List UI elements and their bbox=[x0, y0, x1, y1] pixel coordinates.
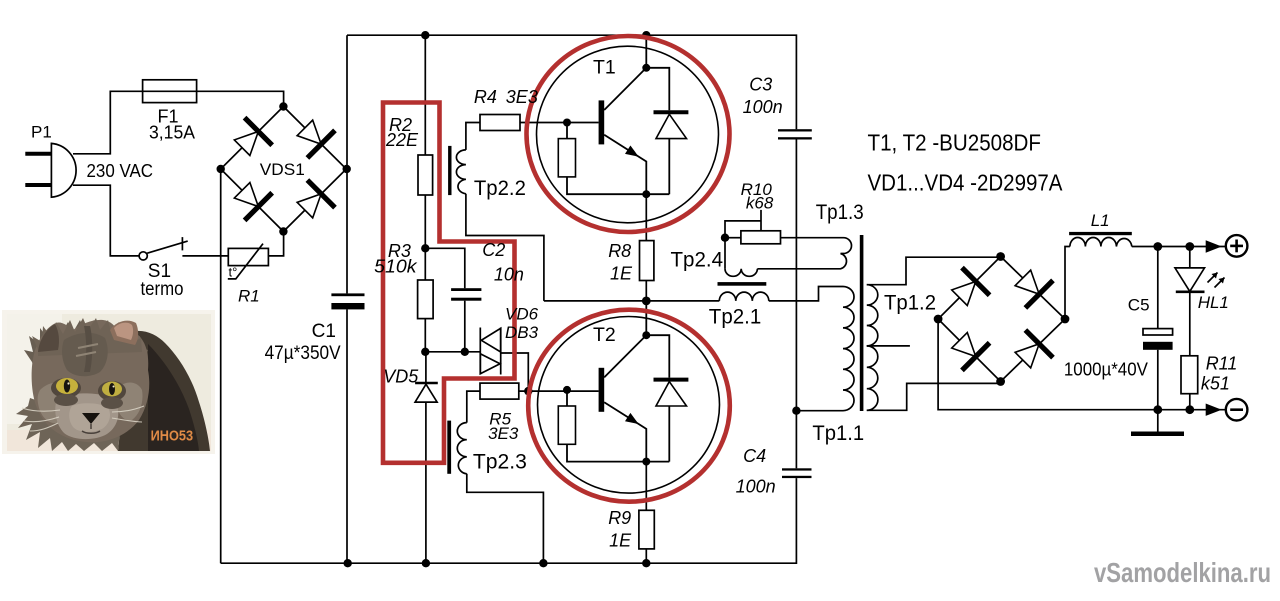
svg-text:C1: C1 bbox=[312, 321, 336, 342]
svg-text:Tp2.4: Tp2.4 bbox=[671, 249, 724, 272]
svg-text:C4: C4 bbox=[743, 446, 766, 466]
svg-text:Tp1.2: Tp1.2 bbox=[884, 292, 936, 315]
svg-text:1000µ*40V: 1000µ*40V bbox=[1064, 360, 1148, 380]
svg-text:R11: R11 bbox=[1206, 354, 1238, 374]
svg-text:Tp1.1: Tp1.1 bbox=[812, 422, 864, 445]
svg-text:ИНО53: ИНО53 bbox=[151, 428, 194, 444]
svg-text:R1: R1 bbox=[238, 287, 260, 306]
svg-text:HL1: HL1 bbox=[1198, 293, 1229, 312]
svg-text:k68: k68 bbox=[746, 194, 774, 213]
svg-text:3E3: 3E3 bbox=[506, 87, 538, 107]
svg-text:k51: k51 bbox=[1201, 374, 1230, 394]
svg-text:DB3: DB3 bbox=[505, 323, 539, 342]
svg-text:Tp2.2: Tp2.2 bbox=[474, 177, 526, 200]
svg-text:C5: C5 bbox=[1128, 296, 1150, 315]
svg-text:t°: t° bbox=[229, 265, 238, 280]
svg-text:VD6: VD6 bbox=[505, 305, 539, 324]
svg-text:vSamodelkina.ru: vSamodelkina.ru bbox=[1094, 557, 1271, 588]
svg-text:Tp2.3: Tp2.3 bbox=[473, 451, 527, 474]
svg-text:3,15A: 3,15A bbox=[149, 123, 195, 143]
svg-text:R9: R9 bbox=[608, 508, 631, 528]
svg-text:47µ*350V: 47µ*350V bbox=[265, 343, 341, 364]
svg-text:22E: 22E bbox=[385, 130, 419, 150]
svg-text:100n: 100n bbox=[743, 97, 783, 117]
svg-text:3E3: 3E3 bbox=[488, 424, 519, 443]
svg-text:T1, T2 -BU2508DF: T1, T2 -BU2508DF bbox=[868, 129, 1042, 155]
svg-text:P1: P1 bbox=[31, 123, 52, 142]
svg-text:VD5: VD5 bbox=[383, 367, 419, 387]
svg-text:R4: R4 bbox=[474, 87, 497, 107]
svg-text:L1: L1 bbox=[1091, 211, 1110, 230]
svg-text:T2: T2 bbox=[593, 324, 616, 346]
svg-text:230 VAC: 230 VAC bbox=[87, 161, 154, 181]
svg-text:VDS1: VDS1 bbox=[260, 160, 305, 179]
svg-text:1E: 1E bbox=[610, 264, 633, 284]
svg-text:T1: T1 bbox=[593, 57, 616, 79]
svg-text:100n: 100n bbox=[736, 476, 776, 496]
svg-text:Tp1.3: Tp1.3 bbox=[816, 201, 864, 224]
svg-text:C2: C2 bbox=[482, 240, 505, 260]
svg-text:510k: 510k bbox=[374, 256, 417, 276]
svg-text:VD1...VD4 -2D2997A: VD1...VD4 -2D2997A bbox=[868, 170, 1064, 196]
svg-text:C3: C3 bbox=[749, 75, 772, 95]
svg-text:10n: 10n bbox=[494, 265, 524, 285]
svg-text:R8: R8 bbox=[608, 241, 631, 261]
svg-text:termo: termo bbox=[141, 279, 184, 300]
svg-text:Tp2.1: Tp2.1 bbox=[709, 306, 762, 329]
svg-text:1E: 1E bbox=[609, 531, 632, 551]
